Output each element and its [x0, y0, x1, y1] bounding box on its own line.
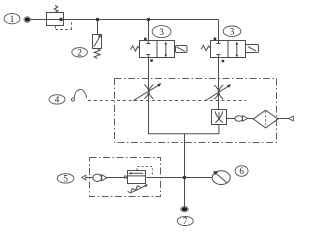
svg-text:6: 6	[239, 166, 244, 176]
svg-text:1: 1	[10, 14, 15, 24]
svg-text:5: 5	[63, 174, 68, 184]
svg-text:3: 3	[159, 27, 164, 37]
svg-text:4: 4	[55, 95, 60, 105]
svg-text:3: 3	[230, 26, 235, 36]
svg-text:2: 2	[77, 47, 82, 57]
svg-text:7: 7	[183, 216, 188, 226]
